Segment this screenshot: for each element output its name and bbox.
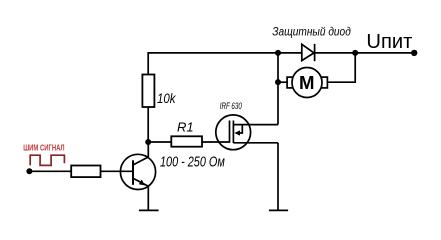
node top right junction xyxy=(352,50,358,56)
wire resistor to transistor base xyxy=(101,170,133,172)
svg-text:Uпит: Uпит xyxy=(366,30,413,53)
node input xyxy=(26,168,32,174)
svg-text:ШИМ СИГНАЛ: ШИМ СИГНАЛ xyxy=(23,144,65,153)
wire collector up xyxy=(147,142,149,157)
wire motor right up to rail xyxy=(327,53,355,82)
motor M1 xyxy=(287,68,327,98)
resistor R1 xyxy=(171,136,202,146)
svg-text:IRF 630: IRF 630 xyxy=(220,101,242,112)
node motor left junction xyxy=(275,79,281,85)
wire top rail right xyxy=(355,52,414,54)
diode D1 protective xyxy=(278,44,355,61)
node top left junction xyxy=(275,50,281,56)
svg-text:R1: R1 xyxy=(177,120,194,135)
resistor base xyxy=(71,166,100,178)
svg-text:10k: 10k xyxy=(157,90,176,106)
svg-text:Защитный диод: Защитный диод xyxy=(272,24,351,38)
svg-text:M: M xyxy=(299,72,315,93)
ground Q2 xyxy=(269,209,288,211)
transistor Q1 xyxy=(120,154,155,189)
svg-text:100 - 250 Ом: 100 - 250 Ом xyxy=(160,154,225,170)
wire motor left xyxy=(278,81,287,83)
wire emitter to ground xyxy=(147,186,149,210)
wire input to resistor xyxy=(29,170,71,172)
node Uпит terminal xyxy=(411,50,417,56)
resistor 10k xyxy=(142,75,154,108)
PWM square wave xyxy=(30,155,64,165)
wire junction to 10k xyxy=(147,107,149,142)
ground Q1 xyxy=(139,209,159,211)
node collector junction xyxy=(145,139,151,145)
MOSFET Q2 IRF630 xyxy=(216,115,278,150)
wire 10k to top rail xyxy=(148,53,278,75)
wire top junction down to motor node xyxy=(277,53,279,125)
wire R1 to gate xyxy=(202,141,230,143)
wire junction to R1 xyxy=(148,141,171,143)
wire source to ground xyxy=(277,143,279,211)
